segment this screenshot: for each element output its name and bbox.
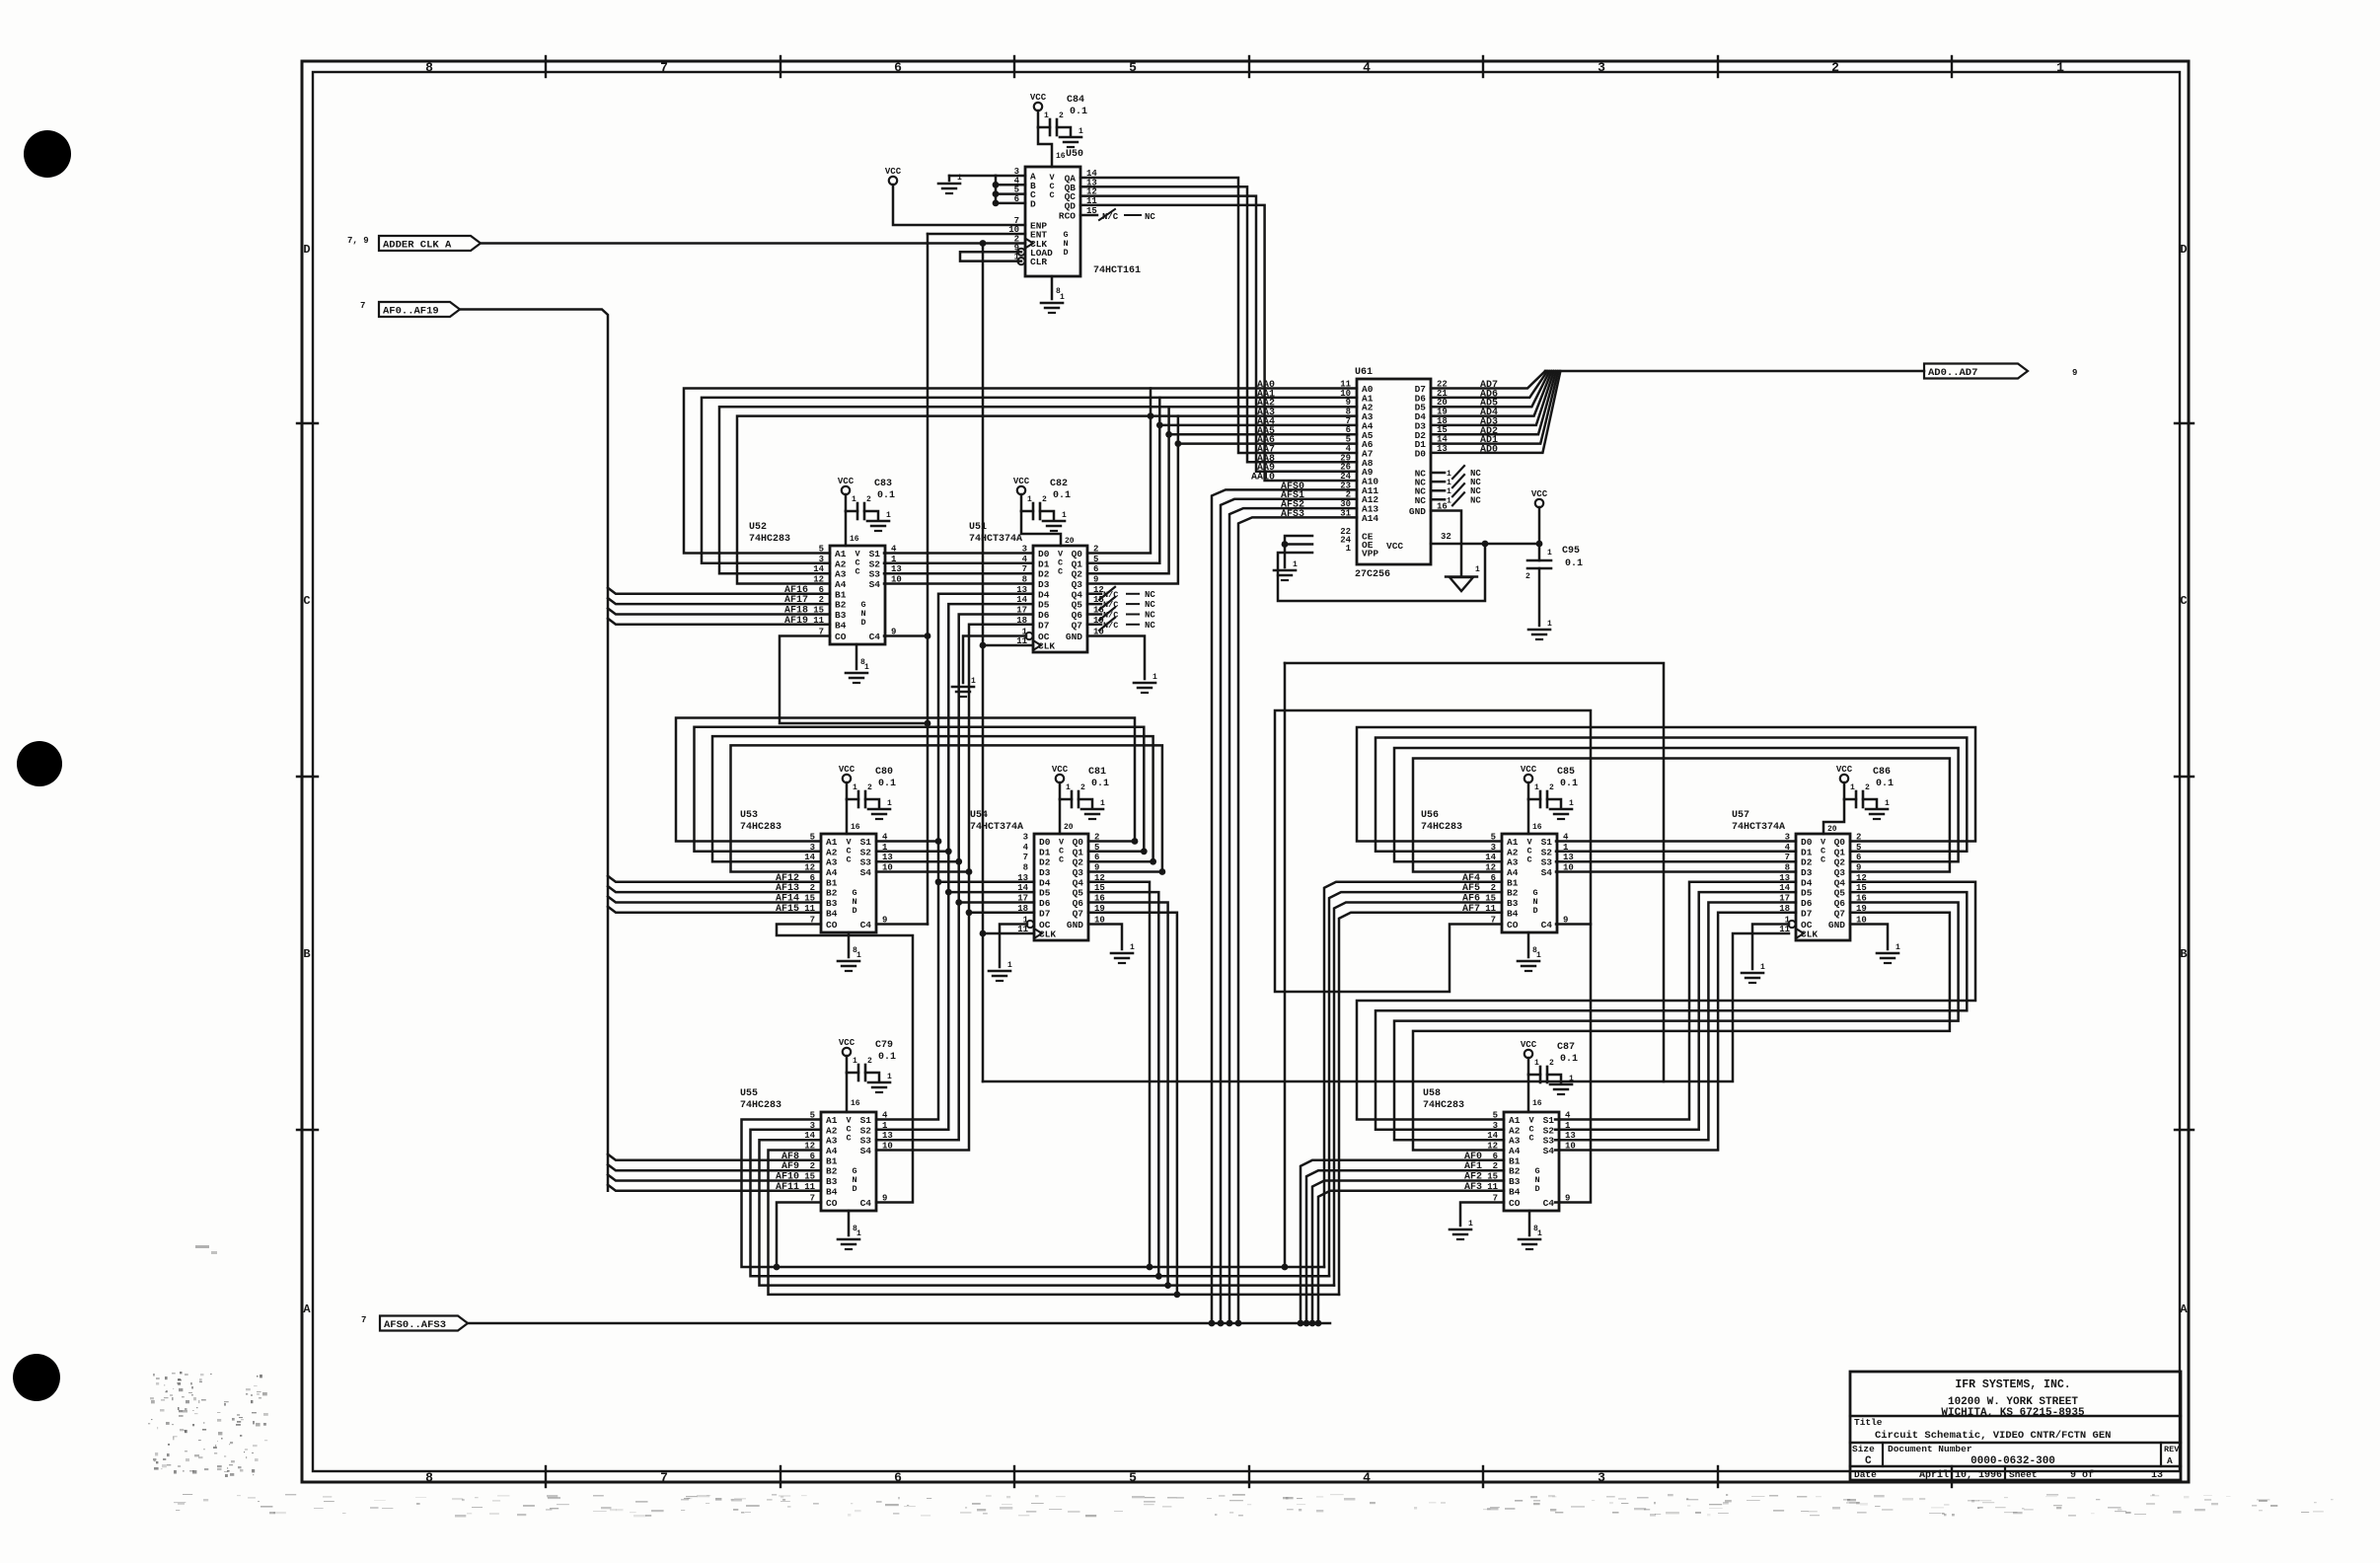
wire AF19 branch (608, 619, 830, 625)
wire AF11 branch (608, 1185, 821, 1191)
svg-text:AF0..AF19: AF0..AF19 (383, 306, 439, 318)
svg-text:1: 1 (1547, 549, 1552, 558)
svg-text:0.1: 0.1 (1560, 779, 1578, 789)
svg-text:D5: D5 (1801, 888, 1813, 899)
svg-text:D1: D1 (1039, 847, 1051, 857)
svg-text:1: 1 (1062, 511, 1067, 520)
net labels AFS0-AFS3 (1281, 482, 1304, 520)
svg-text:27C256: 27C256 (1355, 569, 1390, 580)
svg-text:C85: C85 (1557, 767, 1575, 778)
svg-text:VCC: VCC (838, 477, 855, 486)
svg-text:A2: A2 (1509, 1125, 1521, 1136)
svg-text:7: 7 (660, 1470, 668, 1485)
svg-text:0.1: 0.1 (1876, 779, 1894, 789)
wire AF8 branch (608, 1154, 821, 1160)
svg-text:2: 2 (867, 783, 872, 792)
svg-text:GND: GND (1067, 920, 1083, 930)
wire U50 QD to EPROM A10 (1080, 205, 1357, 481)
svg-text:AF8: AF8 (781, 1152, 799, 1162)
svg-text:U55: U55 (740, 1088, 758, 1099)
svg-text:74HC283: 74HC283 (740, 822, 781, 833)
svg-text:B2: B2 (1507, 888, 1519, 899)
svg-text:AF0: AF0 (1464, 1152, 1482, 1162)
wire loop U56/U57 feedback bus bit 1 (1376, 738, 1967, 852)
svg-text:2: 2 (1549, 1059, 1554, 1068)
svg-text:U57: U57 (1732, 810, 1749, 821)
svg-text:1: 1 (856, 951, 861, 960)
wire AF5 riser to U56 (1329, 892, 1502, 1276)
svg-text:A: A (303, 1302, 311, 1316)
wire EPROM NC pin 1 (1431, 466, 1481, 479)
svg-text:4: 4 (1023, 843, 1029, 853)
wire U58 C4 to U56 C0 carry loop (1275, 710, 1591, 1203)
wire AFS0 to EPROM A11 (1209, 489, 1357, 1326)
svg-text:1: 1 (1100, 799, 1105, 808)
svg-text:C79: C79 (875, 1040, 893, 1051)
svg-text:20: 20 (1064, 823, 1074, 832)
wire AF14 branch (608, 897, 821, 903)
svg-text:Date: Date (1854, 1469, 1877, 1480)
wire bottom bundle extension to AF risers (1147, 1264, 1339, 1299)
capacitor C86 with VCC (1823, 765, 1894, 834)
svg-text:REV: REV (2164, 1445, 2180, 1454)
wire AF6 riser to U56 (1334, 903, 1502, 1286)
svg-text:Document Number: Document Number (1888, 1444, 1972, 1454)
svg-text:1: 1 (1547, 620, 1552, 629)
svg-text:A2: A2 (1507, 847, 1519, 857)
wire AA5 line to EPROM (1169, 433, 1357, 436)
wire AA1 line to EPROM (1156, 398, 1357, 428)
wire U51 Q4 no-connect (1087, 587, 1155, 600)
svg-text:8: 8 (1023, 863, 1028, 873)
svg-text:1: 1 (1293, 560, 1298, 569)
wire U50 QC to EPROM A9 (1080, 196, 1357, 472)
svg-text:GND: GND (1409, 506, 1426, 517)
wire U50 ENT (928, 233, 1025, 236)
svg-text:1: 1 (1066, 783, 1071, 792)
svg-text:3: 3 (1598, 1470, 1605, 1485)
svg-text:C: C (1049, 190, 1054, 200)
sheet border inner frame (313, 72, 2180, 1471)
scan smudge bottom left (148, 1372, 268, 1477)
svg-text:D: D (303, 243, 310, 257)
svg-text:AF19: AF19 (784, 616, 808, 627)
svg-text:B4: B4 (826, 1186, 838, 1197)
net labels AF4-AF7 (1462, 873, 1480, 915)
svg-text:A2: A2 (826, 1125, 838, 1136)
svg-text:Circuit Schematic, VIDEO CNTR/: Circuit Schematic, VIDEO CNTR/FCTN GEN (1875, 1430, 2111, 1442)
svg-text:VCC: VCC (1052, 765, 1069, 775)
svg-text:C: C (2180, 594, 2187, 608)
zone numbers bottom border (425, 1470, 1605, 1485)
net flag ADDER CLK A (347, 236, 481, 252)
svg-text:VCC: VCC (1521, 765, 1537, 775)
svg-text:U58: U58 (1423, 1088, 1441, 1099)
wire loop U54/U55 feedback bus bit 3 (769, 913, 1177, 1295)
wire AD bus to flag (1545, 370, 1924, 373)
svg-text:Q5: Q5 (1072, 600, 1083, 611)
svg-text:16: 16 (851, 1099, 860, 1108)
svg-text:VCC: VCC (839, 765, 855, 775)
capacitor C87 with VCC (1521, 1040, 1578, 1112)
svg-text:Q7: Q7 (1073, 908, 1084, 919)
svg-text:B4: B4 (1507, 908, 1519, 919)
svg-text:AF17: AF17 (784, 595, 808, 606)
wire AA6 line to EPROM (1178, 442, 1357, 445)
svg-text:Q7: Q7 (1072, 620, 1083, 631)
capacitor C79 with VCC (839, 1038, 896, 1112)
svg-text:1: 1 (1447, 487, 1451, 496)
svg-text:74HCT374A: 74HCT374A (970, 822, 1023, 833)
wire U55 S2 riser to latch D5 (876, 604, 1034, 1130)
svg-text:2: 2 (866, 495, 871, 504)
ground U50 input pins A-D (938, 174, 1025, 206)
svg-text:U50: U50 (1066, 149, 1083, 160)
wire clock distribution horizontal to U57 (983, 933, 1789, 1081)
svg-text:Q1: Q1 (1834, 847, 1846, 857)
ground U54 OC (989, 925, 1027, 982)
wire EPROM D1 to AD bus (1431, 371, 1558, 444)
svg-text:7: 7 (361, 1315, 366, 1325)
svg-text:C81: C81 (1088, 767, 1106, 778)
svg-text:6: 6 (894, 60, 902, 75)
latch U54 74HCT374A (970, 810, 1105, 940)
svg-text:C: C (1528, 1134, 1533, 1144)
svg-text:5: 5 (1129, 60, 1137, 75)
ground U57 GND pin 10 (1850, 925, 1900, 964)
svg-text:AF3: AF3 (1464, 1182, 1482, 1193)
wire U52 S1 to U51 D0 (884, 552, 1033, 555)
svg-text:9 of: 9 of (2070, 1469, 2094, 1481)
svg-text:U56: U56 (1421, 810, 1439, 821)
punch hole top (24, 130, 71, 178)
wire U55 S1 riser to latch D4 (876, 594, 1034, 1120)
wire U56 C4 stub (1556, 923, 1591, 926)
capacitor C81 with VCC (1052, 765, 1109, 834)
svg-text:VPP: VPP (1362, 549, 1378, 559)
svg-text:U52: U52 (749, 522, 767, 533)
ground EPROM GND pin 16 (1431, 511, 1480, 592)
title block title label (1854, 1417, 1883, 1428)
wire U55 S3 riser to latch D6 (876, 615, 1034, 1141)
svg-text:C84: C84 (1067, 95, 1084, 106)
net labels AA0-AA10 (1251, 380, 1275, 484)
net flag AFS0..AFS3 (361, 1315, 468, 1331)
capacitor C83 with VCC (838, 477, 895, 546)
svg-text:Q7: Q7 (1834, 908, 1846, 919)
svg-text:D5: D5 (1038, 600, 1050, 611)
ground U56 GND pin 8 (1518, 932, 1541, 971)
svg-text:2: 2 (1042, 495, 1047, 504)
svg-text:1: 1 (853, 1057, 857, 1066)
svg-text:D: D (852, 1184, 856, 1194)
svg-text:1: 1 (971, 677, 976, 686)
wire U54 CLK (983, 932, 1034, 935)
ground U52 GND pin 8 (846, 644, 869, 683)
svg-text:1: 1 (887, 799, 892, 808)
zone letters left border (303, 243, 311, 1316)
svg-text:5: 5 (1129, 1470, 1137, 1485)
svg-text:C83: C83 (874, 479, 892, 489)
svg-text:NC: NC (1470, 495, 1481, 505)
svg-text:C: C (846, 856, 851, 865)
net labels AF8-AF11 (776, 1152, 799, 1193)
svg-text:VCC: VCC (1836, 765, 1853, 775)
svg-text:D: D (1534, 1184, 1539, 1194)
svg-text:D: D (1532, 906, 1537, 916)
svg-text:2: 2 (1080, 783, 1085, 792)
wire U50 LOAD (960, 252, 1021, 260)
wire AF7 riser to U56 (1339, 913, 1502, 1295)
wire AF13 branch (608, 886, 821, 892)
svg-text:B1: B1 (826, 1155, 838, 1166)
svg-text:AD0: AD0 (1480, 444, 1498, 455)
wire AA3 line to EPROM (1175, 416, 1358, 447)
svg-text:2: 2 (1525, 572, 1530, 581)
svg-text:1: 1 (1060, 293, 1065, 302)
adder U55 74HC283 (740, 1088, 893, 1211)
svg-text:AF5: AF5 (1462, 883, 1480, 894)
wire U52 S3 to U51 D2 (884, 572, 1033, 575)
svg-text:VCC: VCC (1521, 1040, 1537, 1050)
wire AFS3 to EPROM A14 (1235, 517, 1357, 1326)
svg-text:D: D (2180, 243, 2187, 257)
svg-text:D7: D7 (1038, 620, 1050, 631)
svg-text:VCC: VCC (1531, 489, 1548, 499)
svg-text:C4: C4 (1541, 920, 1553, 930)
wire ADDER CLK A to U50 CLK (481, 240, 1025, 247)
net labels AF12-AF15 (776, 873, 799, 915)
svg-text:0.1: 0.1 (878, 1052, 896, 1063)
svg-text:B: B (303, 947, 310, 961)
svg-text:NC: NC (1145, 600, 1155, 610)
sheet border outer frame (302, 61, 2189, 1482)
svg-text:1: 1 (1346, 544, 1352, 554)
svg-text:B4: B4 (1509, 1186, 1521, 1197)
svg-text:B2: B2 (826, 888, 838, 899)
svg-text:0.1: 0.1 (1091, 779, 1109, 789)
svg-text:1: 1 (1537, 1229, 1542, 1238)
svg-text:VCC: VCC (839, 1038, 855, 1048)
svg-text:74HCT374A: 74HCT374A (969, 534, 1022, 545)
svg-text:74HC283: 74HC283 (740, 1100, 781, 1111)
svg-text:0000-0632-300: 0000-0632-300 (1971, 1455, 2055, 1467)
svg-text:Q1: Q1 (1072, 558, 1083, 569)
svg-text:1: 1 (1536, 951, 1541, 960)
title block outline (1850, 1372, 2181, 1480)
svg-text:N/C: N/C (1103, 611, 1118, 621)
wire AF10 branch (608, 1175, 821, 1181)
adder U56 74HC283 (1421, 810, 1574, 932)
VCC node U50 ENP (885, 167, 1025, 225)
svg-text:2: 2 (1831, 60, 1839, 75)
svg-text:Size: Size (1852, 1444, 1875, 1454)
wire EPROM D4 to AD bus (1431, 371, 1552, 416)
svg-text:CLR: CLR (1030, 257, 1047, 267)
title block schematic title (1875, 1430, 2111, 1442)
svg-text:1: 1 (1153, 673, 1157, 682)
svg-text:1: 1 (1760, 963, 1765, 972)
svg-text:7: 7 (660, 60, 668, 75)
svg-text:32: 32 (1441, 532, 1451, 542)
svg-text:N/C: N/C (1102, 212, 1119, 222)
svg-text:C4: C4 (869, 632, 881, 642)
svg-text:74HC283: 74HC283 (749, 534, 790, 545)
svg-text:1: 1 (1534, 1059, 1539, 1068)
wire U52 C4 stub (884, 634, 928, 637)
ground U50 GND pin 8 (1041, 276, 1065, 313)
wire loop U52/U51 feedback bus bit 3 (737, 416, 1178, 584)
svg-text:C: C (846, 1134, 851, 1144)
svg-text:1: 1 (1569, 799, 1574, 808)
svg-text:1: 1 (1468, 1220, 1473, 1228)
ground U53 GND pin 8 (838, 932, 861, 971)
wire U52 C0 to carry bus (780, 636, 928, 724)
wire U51 Q7 no-connect (1087, 618, 1155, 631)
zone letters right border (2180, 243, 2188, 1316)
svg-text:1: 1 (1447, 479, 1451, 487)
svg-text:April 10, 1996: April 10, 1996 (1919, 1469, 2002, 1481)
svg-text:1: 1 (1044, 112, 1049, 120)
wire loop U57/U58 feedback bus bit 3 (1413, 913, 1950, 1151)
capacitor C95 with VCC (1525, 489, 1583, 639)
svg-text:D7: D7 (1801, 908, 1813, 919)
title block company name (1955, 1378, 2070, 1391)
svg-text:GND: GND (1828, 920, 1845, 930)
capacitor C85 with VCC (1521, 765, 1578, 834)
svg-text:AF15: AF15 (776, 904, 799, 915)
wire U50 QA to EPROM A7 (1080, 178, 1357, 453)
svg-text:0.1: 0.1 (877, 490, 895, 501)
adder U53 74HC283 (740, 810, 893, 932)
svg-text:S2: S2 (860, 847, 872, 857)
wire EPROM D5 to AD bus (1431, 371, 1549, 407)
scan smudge bottom band (174, 1494, 2334, 1518)
svg-text:A2: A2 (835, 558, 847, 569)
wire AF0..AF19 bus from flag (460, 310, 608, 1191)
svg-text:C82: C82 (1050, 479, 1068, 489)
svg-text:74HC283: 74HC283 (1423, 1100, 1464, 1111)
title block address line 1 (1948, 1396, 2078, 1408)
wire AF1 riser to U58 (1303, 1170, 1504, 1326)
wire loop U57/U58 feedback bus bit 0 (1357, 882, 1975, 1120)
wire clock distribution vertical x996 (980, 244, 987, 1082)
svg-text:GND: GND (1066, 632, 1082, 642)
svg-text:1: 1 (1896, 943, 1900, 952)
wire AA0 line to EPROM (1148, 389, 1357, 420)
svg-text:C: C (1059, 856, 1064, 865)
svg-text:C: C (303, 594, 310, 608)
svg-text:D1: D1 (1038, 558, 1050, 569)
svg-text:AD0..AD7: AD0..AD7 (1928, 367, 1977, 379)
svg-text:C: C (1821, 856, 1825, 865)
wire EPROM D0 to AD bus (1431, 371, 1560, 453)
wire U55 S4 riser to latch D7 (876, 625, 1034, 1151)
svg-text:74HC283: 74HC283 (1421, 822, 1462, 833)
title block document number (1971, 1455, 2055, 1467)
wire EPROM NC pin 2 (1431, 475, 1481, 487)
svg-text:N/C: N/C (1103, 590, 1118, 600)
svg-text:AFS0..AFS3: AFS0..AFS3 (384, 1319, 446, 1331)
wire loop U54/U55 feedback bus bit 2 (760, 903, 1168, 1286)
svg-text:1: 1 (1850, 783, 1855, 792)
zone tick marks top border (546, 56, 1952, 77)
svg-text:8: 8 (425, 60, 433, 75)
wire loop U56/U57 feedback bus bit 0 (1357, 727, 1975, 842)
svg-text:D: D (852, 906, 856, 916)
wire AF12 branch (608, 876, 821, 882)
wire EPROM D6 to AD bus (1431, 371, 1547, 398)
wire loop U56/U57 feedback bus bit 3 (1413, 759, 1950, 872)
svg-text:1: 1 (2056, 60, 2064, 75)
ground U55 GND pin 8 (838, 1211, 861, 1249)
wire U50 RCO no-connect (1080, 209, 1155, 222)
title block address line 2 (1941, 1407, 2085, 1419)
adder U58 74HC283 (1423, 1088, 1576, 1211)
net flag AF0..AF19 (360, 301, 460, 318)
svg-text:D: D (1030, 198, 1036, 209)
wire EPROM NC pin 3 (1431, 484, 1481, 496)
ground U51 OC (952, 636, 1026, 698)
svg-text:7, 9: 7, 9 (347, 236, 369, 246)
wire loop U53/U54 feedback bus bit 3 (731, 745, 1166, 874)
net labels AF0-AF3 (1464, 1152, 1482, 1193)
wire AF4 riser to U56 (1324, 882, 1502, 1267)
wire U58 S2 riser to U57 D5 (1555, 892, 1796, 1130)
svg-text:C80: C80 (875, 767, 893, 778)
svg-text:N/C: N/C (1103, 600, 1118, 610)
EPROM U61 27C256 (1340, 367, 1448, 580)
punch hole middle (17, 741, 62, 786)
svg-text:S2: S2 (1541, 847, 1553, 857)
scan smudge left margin marks (195, 1245, 217, 1254)
svg-text:S4: S4 (860, 867, 872, 878)
zone tick marks right border (2175, 423, 2194, 1130)
svg-text:D: D (860, 618, 865, 628)
ground U51 GND pin 10 (1087, 636, 1157, 694)
svg-text:8: 8 (425, 1470, 433, 1485)
svg-text:0.1: 0.1 (1560, 1054, 1578, 1065)
svg-text:1: 1 (1078, 127, 1083, 136)
svg-text:1: 1 (887, 1073, 892, 1081)
svg-text:D0: D0 (1415, 448, 1427, 459)
capacitor C84 with VCC (1030, 93, 1087, 167)
title block date row (1854, 1469, 2163, 1481)
svg-text:1: 1 (1007, 961, 1012, 970)
wire loop U53/U54 feedback bus bit 0 (676, 718, 1138, 845)
svg-text:C4: C4 (860, 920, 872, 930)
svg-text:1: 1 (1534, 783, 1539, 792)
wire AF15 branch (608, 907, 821, 913)
svg-text:NC: NC (1145, 212, 1155, 222)
svg-text:1: 1 (856, 1229, 861, 1238)
wire AF3 riser to U58 (1315, 1191, 1504, 1327)
svg-text:U54: U54 (970, 810, 988, 821)
svg-text:VCC: VCC (1386, 541, 1403, 552)
wire U53 S1 stub to riser (876, 838, 941, 845)
wire loop U53/U54 feedback bus bit 1 (695, 727, 1148, 855)
svg-text:D5: D5 (1039, 888, 1051, 899)
svg-text:CLK: CLK (1038, 641, 1055, 652)
svg-text:S2: S2 (860, 1125, 872, 1136)
wire U52 S4 to U51 D3 (884, 582, 1033, 585)
wire EPROM D2 to AD bus (1431, 371, 1556, 434)
svg-text:16: 16 (1532, 1099, 1542, 1108)
svg-text:1: 1 (1447, 496, 1451, 505)
wire AA4 line to EPROM (1159, 424, 1357, 427)
svg-text:NC: NC (1145, 611, 1155, 621)
svg-text:U51: U51 (969, 522, 987, 533)
